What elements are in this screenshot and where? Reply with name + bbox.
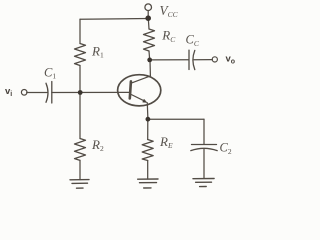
svg-text:C2: C2 bbox=[220, 141, 232, 156]
wire base bbox=[52, 91, 130, 93]
svg-text:VCC: VCC bbox=[160, 3, 179, 19]
wire RE lower bbox=[147, 161, 149, 180]
node: VCC junction bbox=[145, 15, 151, 21]
wire left branch mid bbox=[79, 66, 81, 139]
terminal VCC bbox=[145, 4, 152, 11]
wire VCC to RC bbox=[147, 19, 150, 30]
svg-text:vi: vi bbox=[5, 86, 12, 98]
capacitor C1 bbox=[46, 82, 52, 104]
wire top rail bbox=[80, 18, 148, 21]
wire output bbox=[150, 59, 189, 61]
svg-text:vo: vo bbox=[226, 53, 236, 65]
wire to vo bbox=[194, 59, 212, 61]
svg-text:RE: RE bbox=[159, 134, 173, 150]
capacitor CC bbox=[189, 50, 195, 69]
terminal vo bbox=[212, 57, 217, 62]
wire RC to collector node bbox=[148, 51, 151, 60]
wire RE upper bbox=[147, 119, 149, 139]
svg-text:C1: C1 bbox=[44, 65, 56, 80]
wire emitter to C2 bbox=[148, 118, 204, 120]
wire input bbox=[27, 92, 48, 94]
wire left branch lower bbox=[79, 160, 81, 179]
transistor Q1 bbox=[118, 75, 161, 106]
ground (left) bbox=[70, 180, 89, 189]
node: emitter junction bbox=[146, 117, 151, 122]
capacitor C2 bbox=[191, 145, 217, 151]
wire emitter bbox=[146, 103, 149, 119]
svg-text:RC: RC bbox=[161, 28, 176, 44]
wire VCC stub bbox=[147, 11, 149, 16]
wire left branch upper bbox=[79, 19, 81, 43]
wire C2 upper bbox=[203, 119, 205, 144]
node: collector junction bbox=[147, 58, 152, 63]
ground (right) bbox=[193, 179, 214, 187]
svg-text:CC: CC bbox=[186, 33, 200, 48]
node: base junction bbox=[78, 90, 83, 95]
svg-text:R2: R2 bbox=[91, 137, 104, 153]
resistor R2 bbox=[75, 139, 86, 161]
ground (middle) bbox=[138, 179, 158, 188]
wire collector bbox=[149, 60, 151, 76]
terminal vi bbox=[21, 90, 27, 96]
resistor RC bbox=[144, 29, 155, 51]
resistor RE bbox=[142, 140, 153, 161]
svg-text:R1: R1 bbox=[91, 43, 104, 59]
resistor R1 bbox=[75, 44, 86, 66]
wire C2 lower bbox=[203, 149, 205, 178]
